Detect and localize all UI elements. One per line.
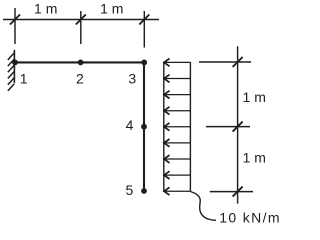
svg-text:1 m: 1 m xyxy=(243,150,266,166)
svg-text:5: 5 xyxy=(126,182,134,198)
svg-text:10 kN/m: 10 kN/m xyxy=(219,210,280,226)
svg-text:1 m: 1 m xyxy=(100,1,123,17)
svg-text:2: 2 xyxy=(76,70,84,86)
svg-text:1: 1 xyxy=(20,70,28,86)
svg-text:4: 4 xyxy=(126,117,134,133)
svg-text:1 m: 1 m xyxy=(34,1,57,17)
svg-text:3: 3 xyxy=(128,70,136,86)
svg-text:1 m: 1 m xyxy=(243,89,266,105)
